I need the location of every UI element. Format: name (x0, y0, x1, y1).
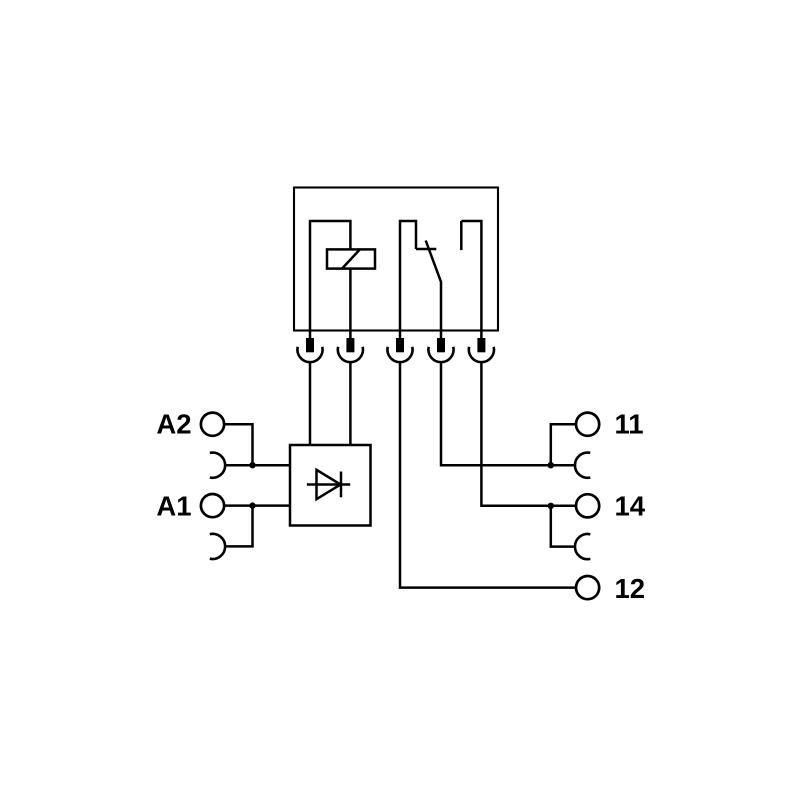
NO contact stub (460, 221, 463, 250)
coil diagonal mark (342, 249, 360, 268)
fixed contact bar (416, 248, 436, 251)
terminal 11 socket hook (575, 453, 590, 478)
wire coil to pin 2 (349, 269, 352, 331)
diode V1 cathode bar (340, 472, 343, 498)
plug pin 2 stem (349, 331, 352, 339)
wire coil branch (pin A2 side up-over-down) (310, 221, 350, 331)
terminal A2 circle (201, 413, 224, 436)
junction node A1 (249, 502, 255, 508)
terminal 12 circle (576, 576, 599, 599)
wire pin5 down and to 14 junction (481, 362, 576, 506)
svg-text:11: 11 (615, 409, 644, 440)
socket 5 arc (469, 347, 494, 362)
wire A2 circle to junction (224, 424, 252, 465)
svg-text:14: 14 (615, 490, 646, 521)
wire A1 junction down to hook (225, 506, 252, 547)
wire pin3 down and to terminal 12 (400, 362, 576, 588)
diode V1 triangle (317, 470, 341, 499)
terminal 14 socket hook (575, 534, 590, 559)
wire A2 hook to junction to diode box (225, 464, 290, 467)
plug pin 2 contact blade (346, 338, 354, 352)
plug pin 1 stem (309, 331, 312, 339)
diode module box (290, 445, 371, 526)
svg-text:12: 12 (615, 573, 646, 604)
junction node A2 (249, 462, 255, 468)
plug pin 4 stem (440, 331, 443, 339)
wire 11 circle elbow to junction (551, 424, 576, 465)
terminal A1 socket hook (210, 534, 225, 559)
relay module K1 outline (294, 188, 498, 331)
plug pin 3 contact blade (396, 338, 404, 352)
terminal A2 socket hook (210, 453, 225, 478)
terminal A1 circle (201, 494, 224, 517)
plug pin 5 contact blade (477, 338, 485, 352)
wire 14 junction down to hook (551, 506, 575, 547)
socket 3 arc (387, 347, 412, 362)
switch blade S1 (426, 241, 441, 331)
plug pin 4 contact blade (437, 338, 445, 352)
wire A1 circle to diode box (224, 504, 290, 507)
junction node 11 (548, 462, 554, 468)
plug pin 3 stem (399, 331, 402, 339)
plug pin 1 contact blade (306, 338, 314, 352)
wire pin1 to diode box (309, 362, 312, 445)
socket 1 arc (297, 347, 322, 362)
wire junction to 11 hook (551, 464, 575, 467)
plug pin 5 stem (480, 331, 483, 339)
wire pin4 down and to 11 junction (441, 362, 551, 465)
wire NO contact to pin 5 (461, 221, 481, 331)
relay coil K1 (327, 249, 375, 268)
terminal 14 circle (576, 494, 599, 517)
diode V1 axis wire (307, 483, 350, 486)
wire pin2 to diode box (349, 362, 352, 445)
svg-text:A1: A1 (156, 490, 191, 521)
svg-text:A2: A2 (156, 409, 191, 440)
socket 2 arc (338, 347, 363, 362)
terminal 11 circle (576, 413, 599, 436)
socket 4 arc (428, 347, 453, 362)
wire contact common (pin 3 up-over-down) (400, 221, 416, 331)
junction node 14 (548, 503, 554, 509)
